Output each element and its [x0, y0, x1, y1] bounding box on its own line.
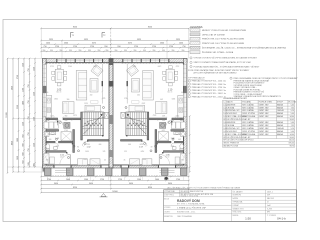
kitchen island — [156, 102, 167, 114]
dining chairs — [163, 66, 178, 86]
window band top wall 1 — [57, 59, 103, 62]
svg-text:950: 950 — [153, 50, 156, 52]
stairs — [126, 112, 147, 136]
stair tread numbers — [85, 123, 102, 126]
svg-text:750: 750 — [28, 68, 30, 71]
hall cabinets — [181, 153, 186, 164]
svg-text:VÝPLNE OTVOROV VIĎ VÝPIS OKIEN: VÝPLNE OTVOROV VIĎ VÝPIS OKIEN A DVERÍ, … — [194, 57, 258, 60]
svg-text:950: 950 — [98, 50, 101, 52]
svg-text:MAĽBA: MAĽBA — [277, 130, 284, 133]
legend swatch row 2 — [190, 33, 200, 36]
sink — [179, 98, 183, 103]
svg-text:DREV. STUPNE: DREV. STUPNE — [242, 113, 256, 115]
svg-text:800: 800 — [162, 116, 165, 118]
svg-text:PODHĽAD SADROKARTÓN – V KÚPEĽN: PODHĽAD SADROKARTÓN – V KÚPEĽNIACH IMPRE… — [194, 65, 261, 68]
interior wall bath mid — [174, 141, 183, 143]
svg-text:2000: 2000 — [155, 179, 159, 181]
interior wall stair side — [147, 112, 149, 140]
svg-text:A POLOHY INŽINIERSKYCH SIETÍ N: A POLOHY INŽINIERSKYCH SIETÍ NA POZEMKU — [194, 71, 237, 74]
desk above stairs — [129, 105, 145, 111]
room table grid — [223, 100, 295, 147]
svg-text:1500: 1500 — [137, 179, 141, 181]
stairs — [82, 112, 103, 136]
window band left wall upper — [43, 65, 46, 87]
svg-text:750: 750 — [28, 116, 30, 119]
svg-text:3275: 3275 — [128, 43, 132, 45]
party wall low segment — [109, 150, 113, 157]
title block frame — [164, 190, 297, 222]
bath sink — [174, 132, 180, 135]
svg-text:950: 950 — [162, 50, 165, 52]
svg-text:1250: 1250 — [34, 117, 36, 121]
left dimension line col 2 — [12, 58, 14, 173]
svg-text:1450: 1450 — [179, 43, 183, 45]
sofa — [143, 71, 154, 101]
svg-text:PREKLAD YTONG NOP II/3 – 1300: PREKLAD YTONG NOP II/3 – 1300 1 ks — [192, 92, 226, 95]
svg-text:JK: JK — [267, 202, 269, 204]
exterior wall left — [43, 59, 47, 169]
stair arrow — [127, 115, 146, 135]
page border frame — [3, 20, 297, 222]
svg-text:OBJEKT: OBJEKT — [164, 211, 170, 213]
svg-text:1520: 1520 — [84, 103, 88, 105]
right dimension line — [189, 115, 191, 173]
svg-text:PRIEČKY HR. 100 YTONG P2-500 H: PRIEČKY HR. 100 YTONG P2-500 HR.100MM — [202, 42, 244, 45]
svg-text:1700: 1700 — [162, 130, 166, 132]
svg-text:PREKLAD YTONG NOP II/3 – 2250: PREKLAD YTONG NOP II/3 – 2250 1 ks — [192, 95, 226, 98]
bottom dimension line row 3 — [40, 184, 190, 186]
svg-text:1250: 1250 — [34, 92, 36, 96]
exterior wall right — [183, 59, 187, 169]
svg-text:1700: 1700 — [64, 130, 68, 132]
top wall window jamb marks — [56, 59, 169, 62]
svg-text:900: 900 — [23, 143, 25, 146]
entry steps left — [55, 169, 70, 171]
svg-text:INVESTOR:: INVESTOR: — [164, 216, 173, 218]
porch dashed edge — [45, 175, 188, 177]
wardrobe pieces by bottom wall — [142, 159, 152, 165]
wc small sink — [54, 147, 58, 149]
interior wall bath top — [171, 130, 184, 132]
svg-text:LEGENDA:: LEGENDA: — [190, 25, 203, 29]
svg-text:1250: 1250 — [23, 122, 25, 126]
lintel row 6 — [188, 96, 190, 98]
stair arrow — [84, 115, 103, 135]
svg-text:2250: 2250 — [17, 105, 19, 109]
svg-text:PREKLAD YTONG NOP II/3 – 1250: PREKLAD YTONG NOP II/3 – 1250 2 ks — [192, 89, 226, 92]
svg-text:1800: 1800 — [54, 99, 58, 101]
left wall pier — [43, 86, 46, 93]
svg-text:KER. DLAŽBA: KER. DLAŽBA — [242, 103, 254, 106]
svg-text:STROP: STROP — [277, 101, 284, 103]
svg-text:8250: 8250 — [148, 187, 152, 189]
svg-text:OMIET. VÁP.: OMIET. VÁP. — [259, 112, 270, 115]
svg-text:SPOLU ÚŽITKOVÁ PLOCHA 1.NP: SPOLU ÚŽITKOVÁ PLOCHA 1.NP — [223, 118, 251, 121]
rug edge — [91, 101, 99, 103]
svg-text:1650: 1650 — [17, 156, 19, 160]
svg-text:OMIET. VÁP.: OMIET. VÁP. — [259, 133, 270, 136]
svg-text:7,35: 7,35 — [291, 107, 294, 109]
party wall flue block — [109, 81, 114, 87]
svg-text:2975: 2975 — [153, 115, 157, 117]
svg-text:1750: 1750 — [134, 46, 138, 48]
utility closet row — [44, 122, 49, 129]
svg-text:PLOCHA: PLOCHA — [289, 100, 297, 103]
svg-text:2100: 2100 — [158, 66, 162, 68]
svg-text:200: 200 — [90, 94, 93, 96]
svg-text:DSP: DSP — [267, 195, 270, 197]
svg-text:875: 875 — [171, 146, 174, 148]
svg-text:1450: 1450 — [46, 43, 50, 45]
svg-text:MAĽBA: MAĽBA — [277, 112, 284, 115]
lintel row 1 — [188, 80, 190, 82]
svg-text:1485: 1485 — [133, 66, 137, 68]
svg-text:ZODP. PROJ.: ZODP. PROJ. — [164, 195, 174, 197]
utility dark unit — [64, 122, 70, 128]
svg-text:950: 950 — [117, 46, 120, 48]
stair cut zigzag — [126, 118, 147, 127]
interior tick marks — [46, 111, 102, 151]
svg-text:2325: 2325 — [49, 39, 53, 41]
svg-text:950: 950 — [69, 50, 72, 52]
svg-text:11000: 11000 — [6, 112, 8, 117]
svg-text:MAĽBA: MAĽBA — [277, 103, 284, 106]
svg-text:1250: 1250 — [34, 143, 36, 147]
lintel row 5 — [188, 92, 190, 94]
svg-text:950: 950 — [104, 46, 107, 48]
svg-text:MAĽBA: MAĽBA — [277, 133, 284, 136]
cooktop — [179, 108, 183, 113]
utility dark unit — [160, 122, 166, 128]
top dimension line row 5 (openings) — [40, 51, 190, 53]
svg-text:OMIET. VÁP.: OMIET. VÁP. — [259, 121, 270, 124]
svg-text:500: 500 — [28, 162, 30, 165]
svg-text:650: 650 — [47, 120, 50, 122]
svg-text:650: 650 — [162, 120, 165, 122]
party wall mid segment — [109, 115, 113, 124]
interior wall bath bottom — [46, 151, 66, 153]
party wall solid top segment — [109, 59, 113, 66]
sofa — [76, 71, 87, 101]
svg-text:1450: 1450 — [85, 151, 89, 153]
svg-text:375: 375 — [46, 160, 49, 162]
dashed ceiling line — [46, 63, 109, 65]
extension lines top — [40, 28, 42, 58]
svg-text:950: 950 — [115, 50, 118, 52]
svg-text:1750: 1750 — [118, 179, 122, 181]
svg-text:950: 950 — [43, 50, 46, 52]
svg-text:OBOST. PRIESTOR: OBOST. PRIESTOR — [223, 143, 240, 145]
svg-text:8250: 8250 — [148, 27, 152, 29]
svg-text:KÚPEĽŇA + WC: KÚPEĽŇA + WC — [227, 127, 241, 130]
legend swatch row 5 — [190, 46, 200, 49]
extension lines left — [8, 58, 43, 60]
opening band bottom wall 1 — [54, 165, 71, 167]
svg-text:950: 950 — [23, 134, 25, 137]
svg-text:1.05: 1.05 — [57, 90, 62, 92]
svg-text:1520: 1520 — [142, 103, 146, 105]
svg-text:2300: 2300 — [160, 43, 164, 45]
bottom dimension line row 2 — [40, 180, 190, 182]
svg-text:1700: 1700 — [176, 179, 180, 181]
svg-text:1900: 1900 — [17, 138, 19, 142]
svg-text:BPV: BPV — [267, 212, 270, 214]
wall inner face lines — [46, 63, 183, 165]
svg-text:KER. DLAŽBA: KER. DLAŽBA — [242, 127, 254, 130]
svg-text:950: 950 — [106, 50, 109, 52]
svg-text:KER. DLAŽBA: KER. DLAŽBA — [242, 124, 254, 127]
sink — [47, 98, 51, 103]
svg-text:1350: 1350 — [23, 63, 25, 67]
svg-text:1. ETAPA 1-4 b.j. PÔDORYS 1.NP: 1. ETAPA 1-4 b.j. PÔDORYS 1.NP — [177, 207, 207, 210]
svg-text:5,60: 5,60 — [291, 122, 294, 124]
svg-text:116,10: 116,10 — [289, 140, 294, 142]
bath sink — [50, 132, 56, 135]
stair tread numbers — [127, 123, 144, 126]
svg-text:3450: 3450 — [129, 183, 133, 185]
svg-text:BYT. VÝST. Ľ. PODHÁJSKA, NITRA: BYT. VÝST. Ľ. PODHÁJSKA, NITRA — [177, 203, 205, 206]
legend swatch row 6 — [190, 51, 200, 54]
porch piers — [45, 168, 188, 176]
svg-text:KER. DLAŽBA: KER. DLAŽBA — [242, 106, 254, 109]
stair cut zigzag — [82, 118, 103, 127]
axis dashed line (party wall axis) — [110, 28, 112, 58]
dining table — [55, 69, 63, 82]
svg-text:16500: 16500 — [112, 191, 117, 193]
legend note 3 — [190, 65, 192, 67]
svg-text:875: 875 — [56, 146, 59, 148]
svg-text:1000: 1000 — [143, 159, 147, 161]
svg-text:5925: 5925 — [84, 39, 88, 41]
svg-text:58,05: 58,05 — [290, 119, 294, 121]
svg-text:KER. DLAŽBA: KER. DLAŽBA — [242, 109, 254, 112]
pier extension lines — [48, 176, 184, 181]
door/window designator circles — [125, 107, 182, 159]
svg-text:OMIET. VÁP.: OMIET. VÁP. — [259, 106, 270, 109]
svg-text:1750: 1750 — [55, 46, 59, 48]
svg-text:1750: 1750 — [100, 179, 104, 181]
svg-text:900: 900 — [49, 139, 52, 141]
svg-text:900: 900 — [160, 99, 163, 101]
window band left wall upper — [183, 65, 186, 87]
interior wall bath top — [46, 130, 59, 132]
opening band bottom wall 2 — [101, 165, 109, 167]
svg-text:MAĽBA: MAĽBA — [277, 124, 284, 127]
svg-text:475: 475 — [124, 98, 127, 100]
svg-text:PREKLAD YTONG NOP V/4 – 1500 2: PREKLAD YTONG NOP V/4 – 1500 2 ks — [192, 83, 226, 86]
interior wall stair side — [81, 112, 83, 140]
exterior wall bottom — [43, 165, 188, 168]
window band left wall lower — [43, 93, 46, 117]
svg-text:950: 950 — [143, 50, 146, 52]
door/window designator circles — [48, 107, 105, 159]
armchair tilted — [126, 65, 138, 77]
interior wall bath right — [155, 130, 157, 153]
svg-text:LAM. PODLAHA: LAM. PODLAHA — [242, 115, 256, 118]
legend note 1 — [190, 57, 192, 59]
svg-text:04/08 - 2: 04/08 - 2 — [267, 191, 273, 193]
svg-text:8250: 8250 — [73, 187, 77, 189]
cooktop — [47, 108, 51, 113]
svg-text:ZÁDVERIE: ZÁDVERIE — [227, 121, 237, 124]
exterior wall top — [43, 59, 188, 63]
svg-text:1:50: 1:50 — [245, 217, 251, 221]
svg-text:SCHODISKO: SCHODISKO — [227, 131, 238, 133]
svg-text:45: 45 — [124, 160, 126, 162]
svg-text:1500: 1500 — [84, 179, 88, 181]
interior wall bath mid — [46, 141, 55, 143]
svg-text:475: 475 — [103, 98, 106, 100]
svg-text:OMIET. VÁP.: OMIET. VÁP. — [259, 115, 270, 118]
svg-text:OMIET. VÁP.: OMIET. VÁP. — [259, 103, 270, 106]
svg-text:RODINNÝ DOM – 2 B.J.: RODINNÝ DOM – 2 B.J. — [177, 211, 196, 214]
armchair tilted — [91, 65, 103, 77]
svg-text:750: 750 — [43, 46, 46, 48]
svg-text:1250: 1250 — [176, 116, 180, 118]
svg-text:5,40: 5,40 — [291, 131, 294, 133]
dining table — [166, 69, 174, 82]
svg-text:800: 800 — [23, 152, 25, 155]
svg-text:650: 650 — [180, 120, 183, 122]
extension lines bottom — [40, 167, 42, 193]
svg-text:695,00: 695,00 — [289, 143, 294, 145]
interior wall kitchen/hall — [46, 118, 58, 120]
desk above stairs — [85, 105, 101, 111]
lintel row 3 — [188, 86, 190, 88]
building corner steps bottom — [43, 168, 45, 172]
svg-text:KÚPEĽŇA + WC: KÚPEĽŇA + WC — [227, 109, 241, 112]
svg-text:4850: 4850 — [12, 141, 14, 145]
kitchen counter on left wall — [178, 96, 184, 118]
svg-text:950: 950 — [172, 50, 175, 52]
svg-text:1750: 1750 — [169, 46, 173, 48]
svg-text:LAM. PODLAHA: LAM. PODLAHA — [242, 133, 256, 136]
svg-text:VŠETKY ROZMERY TREBA OVERIŤ NA: VŠETKY ROZMERY TREBA OVERIŤ NA STAVBE, K… — [194, 61, 252, 64]
kitchen counter on left wall — [46, 96, 52, 118]
shaft next to stairs — [121, 112, 125, 118]
svg-text:3750: 3750 — [17, 75, 19, 79]
svg-text:5,10: 5,10 — [291, 110, 294, 112]
svg-text:3450: 3450 — [54, 183, 58, 185]
dining chairs — [52, 66, 67, 86]
svg-text:OMIET. VÁP.: OMIET. VÁP. — [259, 109, 270, 112]
top dimension line row 4 — [40, 47, 190, 49]
bottom dimension line row 4 (overall) — [40, 188, 190, 190]
svg-text:2425: 2425 — [170, 151, 174, 153]
svg-text:1100: 1100 — [23, 88, 25, 92]
svg-text:1750: 1750 — [73, 46, 77, 48]
wc toilet — [46, 144, 50, 149]
bath washer — [44, 132, 49, 137]
svg-text:KER. DLAŽBA: KER. DLAŽBA — [242, 121, 254, 124]
section marker T1 — [71, 33, 74, 38]
svg-text:58,05: 58,05 — [290, 137, 294, 139]
svg-text:2975: 2975 — [73, 115, 77, 117]
legend swatch row 1 — [190, 29, 200, 32]
svg-text:850: 850 — [23, 160, 25, 163]
window band top wall 2 — [123, 59, 169, 62]
svg-text:1.08: 1.08 — [171, 138, 175, 140]
svg-text:950: 950 — [182, 50, 185, 52]
left dimension line col 5 (openings) — [29, 58, 31, 168]
svg-text:750: 750 — [182, 46, 185, 48]
svg-text:750: 750 — [28, 132, 30, 135]
svg-text:5,10: 5,10 — [291, 128, 294, 130]
coffee table — [132, 79, 140, 93]
glass partition — [126, 64, 128, 104]
wc toilet — [180, 144, 184, 149]
svg-text:5,60: 5,60 — [291, 104, 294, 106]
interior door arcs — [58, 120, 63, 125]
svg-text:200: 200 — [137, 94, 140, 96]
interior door arcs — [167, 120, 172, 125]
interior wall kitchen/hall — [172, 118, 184, 120]
svg-text:MAĽBA: MAĽBA — [277, 121, 284, 124]
window band left wall lower — [183, 93, 186, 117]
svg-text:3275: 3275 — [92, 43, 96, 45]
title block grid — [164, 190, 297, 222]
svg-text:MAĽBA: MAĽBA — [277, 115, 284, 118]
entry steps right — [160, 169, 175, 171]
svg-text:04-1-b: 04-1-b — [277, 217, 286, 221]
glass partition — [101, 64, 103, 104]
svg-text:CHODBA: CHODBA — [227, 106, 235, 109]
hall cabinets — [44, 153, 49, 164]
svg-text:90: 90 — [151, 147, 153, 149]
svg-text:950: 950 — [124, 50, 127, 52]
entrance door swing — [60, 154, 71, 165]
left dimension line col 4 — [23, 58, 25, 173]
svg-text:TYP PREKLADOV: TYP PREKLADOV — [188, 77, 205, 80]
svg-text:750: 750 — [28, 100, 30, 103]
svg-text:8250: 8250 — [73, 27, 77, 29]
svg-text:PRIEČKY HR. 150 YTONG P2-500 H: PRIEČKY HR. 150 YTONG P2-500 HR.150MM — [202, 38, 244, 41]
lintel row 2 — [188, 83, 190, 85]
svg-text:34,60: 34,60 — [290, 116, 294, 118]
svg-text:650: 650 — [65, 120, 68, 122]
svg-text:1250: 1250 — [34, 67, 36, 71]
top dimension line row 3 — [40, 43, 190, 45]
svg-text:1700: 1700 — [47, 179, 51, 181]
svg-text:375: 375 — [181, 160, 184, 162]
svg-text:900: 900 — [178, 139, 181, 141]
svg-text:950: 950 — [50, 50, 53, 52]
legend swatch row 4 — [190, 42, 200, 45]
bottom dimension line row 5 (total) — [40, 192, 190, 194]
svg-text:SPOLU ÚŽITKOVÁ PLOCHA 1.NP: SPOLU ÚŽITKOVÁ PLOCHA 1.NP — [223, 136, 251, 139]
elevation marker diamond — [164, 177, 168, 180]
svg-text:34,60: 34,60 — [290, 134, 294, 136]
svg-text:600: 600 — [46, 92, 49, 94]
top dimension line row 2 — [40, 40, 190, 42]
interior tick marks — [128, 111, 184, 151]
svg-text:800: 800 — [65, 116, 68, 118]
svg-text:1000: 1000 — [83, 159, 87, 161]
rug edge — [132, 101, 140, 103]
svg-text:7,35: 7,35 — [291, 125, 294, 127]
utility closet row — [181, 122, 186, 129]
svg-text:ŽB VENIEC HR. 375MM + DOSKA: ŽB VENIEC HR. 375MM + DOSKA — [202, 51, 234, 54]
svg-text:SCHODISKO: SCHODISKO — [227, 113, 238, 115]
svg-text:1750: 1750 — [90, 46, 94, 48]
kitchen island — [63, 102, 74, 114]
dashed ceiling line — [121, 63, 184, 65]
svg-text:400: 400 — [34, 163, 36, 166]
wardrobe pieces by bottom wall — [78, 159, 88, 165]
svg-text:PODLAHA: PODLAHA — [242, 100, 251, 103]
svg-text:3450: 3450 — [168, 183, 172, 185]
svg-text:CHODBA: CHODBA — [227, 124, 235, 127]
